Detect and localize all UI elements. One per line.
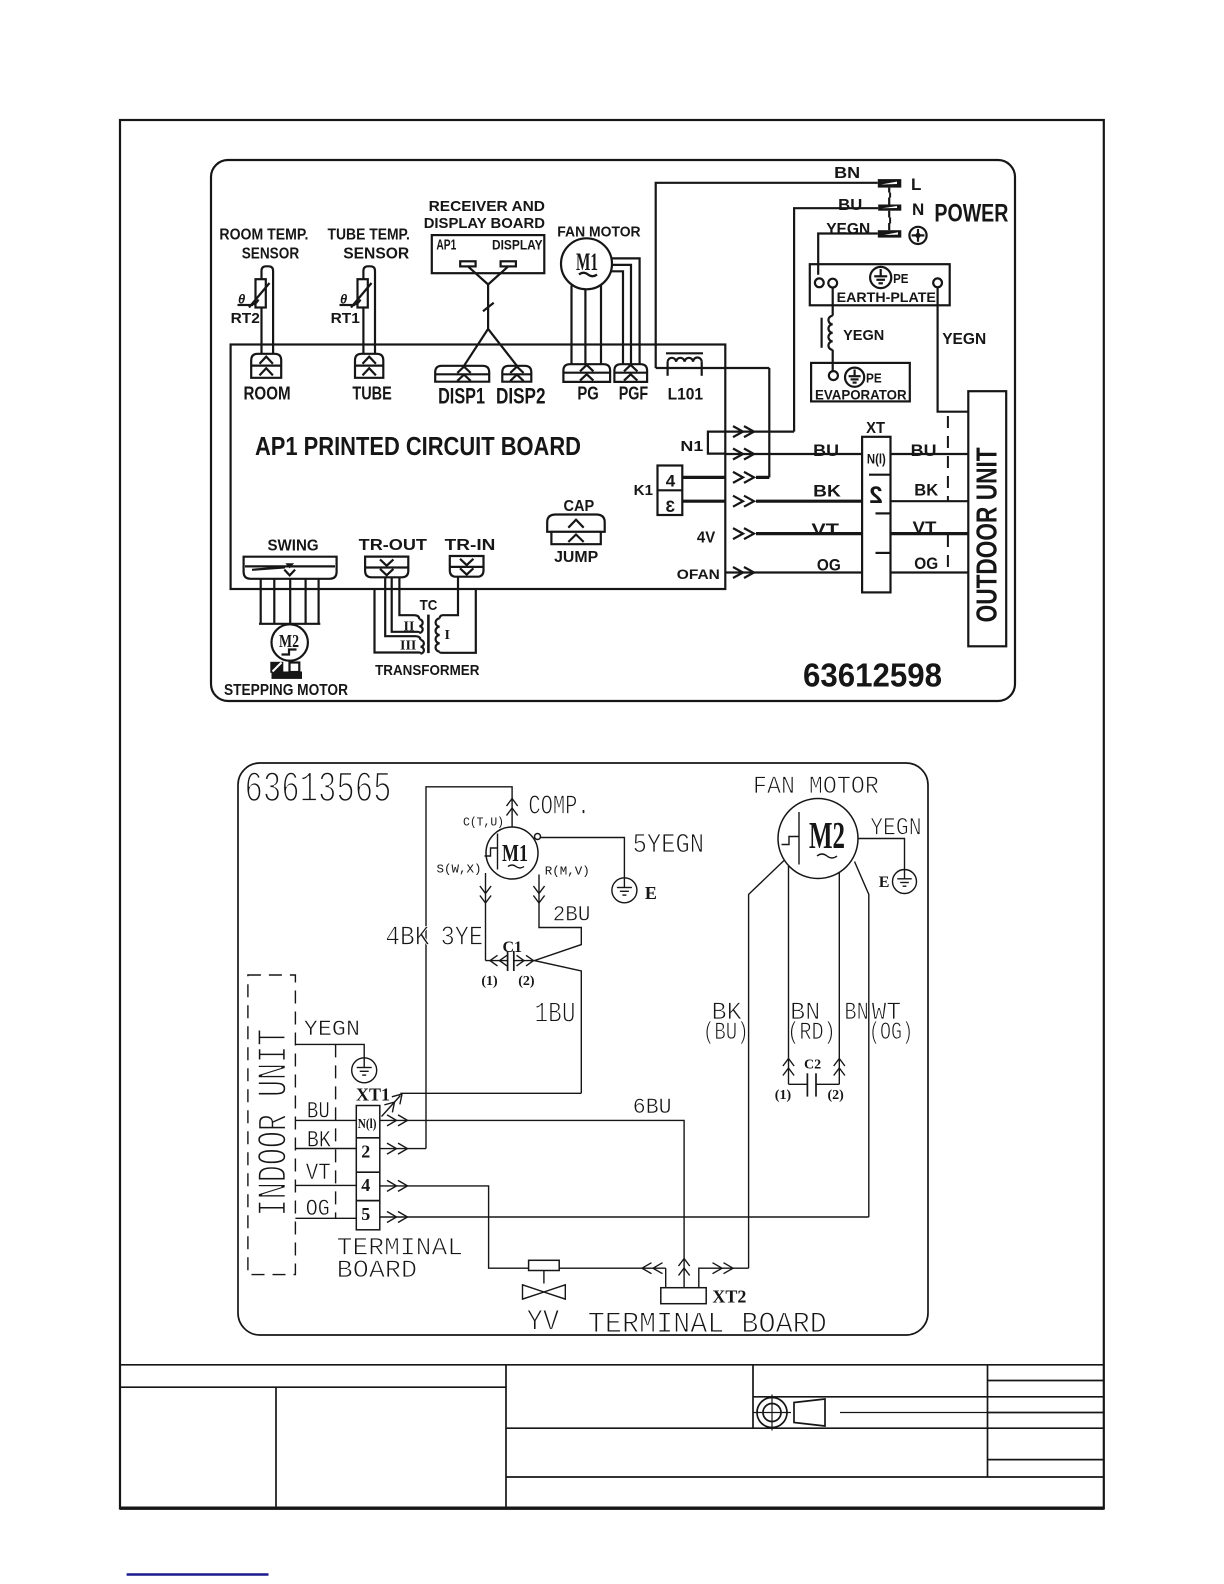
earth plate box [810,264,950,305]
arrows comp up [507,799,518,816]
svg-text:POWER: POWER [934,199,1008,227]
wire BN power [656,183,878,368]
stepping motor icon [270,662,302,679]
svg-text:XT1: XT1 [356,1085,390,1105]
wire OFAN row OG [725,571,862,573]
ground symbol indoor [352,1058,377,1083]
svg-text:OG: OG [914,554,938,573]
arrows diagonal [384,1090,406,1112]
svg-text:3: 3 [666,497,675,516]
relay K1 [658,466,683,516]
svg-text:1BU: 1BU [535,998,576,1031]
wire BK indoor [295,1148,356,1150]
connector TR-OUT [365,557,408,578]
title block vertical 2 [505,1365,507,1508]
terminal block XT1 [356,1106,380,1230]
svg-text:N(l): N(l) [358,1117,377,1132]
wire 3YE from S [485,873,487,961]
wire XT2 right pin [699,1268,749,1288]
terminal block XT [862,437,890,593]
svg-text:(2): (2) [828,1088,845,1103]
svg-text:RT2: RT2 [231,310,260,327]
valve YV body [523,1260,566,1299]
pin circle compressor E [535,834,541,840]
PE earth symbol on earth plate [870,267,891,288]
svg-text:II: II [404,620,415,635]
svg-text:5YEGN: 5YEGN [633,831,705,861]
svg-text:III: III [400,639,416,654]
pad on board right [501,261,516,266]
svg-text:VT: VT [811,520,839,539]
thermistor RT2 [238,279,270,307]
svg-text:CAP: CAP [564,498,595,515]
svg-text:BU: BU [838,197,862,214]
svg-text:YEGN: YEGN [304,1017,360,1042]
wire WT(OG) from fan [855,862,869,1218]
wire BK(BU) from fan [749,860,785,1268]
stepping motor M2 circle [272,624,308,660]
wire room sensor lead loop [262,266,274,354]
wire row2 to 4BK [380,1148,426,1150]
wire row5 to WT [380,1216,869,1218]
svg-text:C1: C1 [503,939,523,956]
title block line 1428 [506,1427,1104,1429]
arrows 6BU row [387,1115,408,1126]
PE earth symbol on evaporator [845,368,864,387]
svg-text:ROOM: ROOM [244,383,291,403]
diagram 1 enclosure box [211,160,1015,701]
wire VT indoor [295,1184,356,1186]
svg-text:BK: BK [914,481,939,500]
title block row line left [121,1386,506,1388]
wire BU row left [725,453,862,455]
svg-text:(1): (1) [775,1088,792,1103]
connector PGF [614,364,647,382]
protector in fan motor [782,812,800,865]
page border frame [120,120,1104,1509]
svg-text:4V: 4V [697,530,716,547]
projection symbol cone [794,1399,825,1426]
connector DISP2 [502,366,531,382]
wire OG row right [891,571,969,573]
choke core bar [820,318,822,348]
wire BU indoor [295,1119,356,1121]
earth screw symbol [909,227,926,244]
svg-text:E: E [879,874,890,891]
svg-text:TERMINAL BOARD: TERMINAL BOARD [588,1308,827,1342]
svg-text:BN: BN [844,998,868,1027]
svg-text:63612598: 63612598 [803,657,942,694]
svg-text:63613565: 63613565 [245,765,392,815]
arrows XT2 right [713,1263,734,1274]
arrows 4V row [733,528,754,539]
svg-text:XT2: XT2 [712,1287,746,1307]
svg-text:YEGN: YEGN [942,331,986,348]
svg-text:DISPLAY: DISPLAY [492,236,543,252]
receiver and display board box U1 [432,235,545,273]
svg-text:STEPPING MOTOR: STEPPING MOTOR [224,682,348,699]
wire compressor C loop 4BK [426,787,512,1149]
svg-text:FAN MOTOR: FAN MOTOR [753,772,879,801]
arrows N1 top [733,426,754,437]
svg-text:BU: BU [911,441,937,460]
svg-text:DISP1: DISP1 [438,383,485,408]
wire OG indoor [295,1217,356,1219]
arrows pin4 row [733,472,754,483]
svg-text:2: 2 [361,1142,370,1162]
svg-text:C(T,U): C(T,U) [463,817,504,830]
svg-text:AP1: AP1 [436,236,456,253]
terminal L [878,179,902,193]
svg-text:BK: BK [307,1128,331,1154]
svg-text:(OG): (OG) [869,1018,913,1047]
connector DISP1 [435,366,489,382]
svg-text:I: I [445,628,450,643]
blue underline mark [127,1573,269,1576]
svg-text:OG: OG [817,555,841,574]
projection symbol centerline [840,1412,988,1414]
title block line mid [753,1396,1104,1398]
svg-text:N(l): N(l) [867,451,886,467]
motor M1 circle [561,238,612,289]
svg-text:4: 4 [666,472,676,491]
transformer TC [375,577,476,654]
arrows row5 [387,1212,408,1223]
arrows BU row [733,449,754,460]
arrows BN(RD) up [783,1059,794,1076]
wire XT2 left pin [665,1268,667,1288]
svg-text:RECEIVER AND: RECEIVER AND [429,198,546,215]
connector TR-IN [450,556,484,577]
svg-text:AP1 PRINTED CIRCUIT BOARD: AP1 PRINTED CIRCUIT BOARD [255,431,581,461]
dashed earth line [947,416,949,501]
ground symbol fan E [893,870,917,894]
svg-text:L101: L101 [668,385,704,404]
svg-text:K1: K1 [634,482,653,499]
wire earth plate to evaporator [832,288,834,372]
node N1 bracket [708,432,725,454]
capacitor jumper CAP [547,515,605,545]
svg-text:TRANSFORMER: TRANSFORMER [375,662,479,679]
svg-text:N1: N1 [680,438,703,455]
title block top line [121,1364,1104,1366]
svg-text:M2: M2 [809,815,845,857]
svg-text:PE: PE [866,371,882,386]
wire motor bus [259,623,320,625]
indoor unit dashed box [248,975,296,1275]
svg-text:M1: M1 [502,841,528,867]
svg-text:TC: TC [420,597,438,614]
title block vertical 1 [275,1387,277,1508]
wire 5YEGN to earth [541,838,625,878]
svg-text:M1: M1 [576,249,598,276]
svg-text:SENSOR: SENSOR [242,246,300,263]
svg-text:TUBE TEMP.: TUBE TEMP. [328,227,410,244]
wire row4 to YV [380,1186,666,1268]
fan motor M2 circle [778,799,858,879]
title block right col line b [988,1412,1104,1414]
svg-text:VT: VT [913,518,938,537]
AP1 printed circuit board box [231,345,726,590]
svg-text:θ: θ [238,292,245,307]
svg-text:EVAPORATOR: EVAPORATOR [815,386,907,402]
terminal PE [878,223,902,238]
svg-text:R(M,V): R(M,V) [545,866,590,879]
svg-text:BK: BK [813,481,841,500]
svg-text:YEGN: YEGN [826,221,870,238]
title block right col line c [988,1459,1104,1461]
wire 6BU row [380,1120,684,1287]
svg-text:YV: YV [527,1306,560,1340]
svg-text:3YE: 3YE [441,924,484,954]
projection symbol circles [753,1395,791,1431]
svg-text:4: 4 [361,1175,370,1195]
wire fan earth [858,839,905,870]
dashed earth boundary indoor [335,1044,337,1218]
inductor L101 [666,353,703,376]
earth plate pin 3 [933,278,942,287]
svg-text:2BU: 2BU [553,903,591,928]
svg-text:PE: PE [893,271,909,286]
wire L101 row [656,368,770,477]
arrows BN up [834,1059,845,1076]
arrows C1 left [490,955,507,966]
protector in compressor [485,834,498,870]
terminal block XT2 [661,1288,706,1304]
svg-text:EARTH-PLATE: EARTH-PLATE [837,289,936,305]
earth plate pin 1 [815,278,824,287]
wire BU row right [891,453,969,455]
arrows 2BU down [533,886,544,903]
svg-text:TR-IN: TR-IN [445,537,496,554]
svg-text:COMP.: COMP. [528,792,589,822]
svg-text:(2): (2) [518,974,535,989]
svg-text:PGF: PGF [619,384,649,404]
capacitor C1 [486,951,535,971]
arrows row2 [387,1143,408,1154]
wire 2BU from R [534,875,581,1094]
svg-text:RT1: RT1 [331,310,360,327]
svg-text:TUBE: TUBE [352,383,391,403]
outdoor unit box [968,391,1006,646]
svg-text:(BU): (BU) [703,1018,749,1047]
arrows XT2 middle up [679,1259,690,1276]
wire BU power [794,208,878,431]
evaporator box [811,363,910,402]
svg-text:XT: XT [866,420,885,437]
svg-text:L: L [911,175,921,194]
title block vertical 3 [752,1365,754,1428]
arrows into XT2 left [642,1263,663,1274]
connector ROOM [251,354,281,378]
svg-text:SENSOR: SENSOR [343,246,409,263]
connector PG [563,364,610,382]
svg-text:M2: M2 [279,631,299,651]
wire VT row right [891,532,969,535]
compressor M1 circle [486,827,538,879]
evaporator pin [829,371,838,380]
page border bottom thick [120,1506,1104,1509]
dashed link between power terminals [889,193,891,226]
wire 4V row VT [756,532,862,535]
svg-text:θ: θ [340,292,347,307]
diagram 2 enclosure box [238,763,928,1335]
svg-text:5: 5 [361,1204,370,1224]
wire Y harness from display board [464,266,517,365]
terminal N [878,198,901,218]
svg-text:6BU: 6BU [633,1095,672,1120]
svg-text:YEGN: YEGN [843,327,884,344]
svg-text:DISP2: DISP2 [496,383,546,408]
pad on board left [460,261,475,266]
arrows row4 [387,1180,408,1191]
arrows pin3 row [733,496,754,507]
arrows 3YE down [480,886,491,903]
wire K1 pin3 row BK [682,500,862,503]
wire K1 pin4 row [682,476,769,479]
svg-text:BN: BN [834,165,860,182]
wire N1 top to BU power [725,431,794,433]
svg-text:BOARD: BOARD [337,1256,417,1285]
svg-text:E: E [645,883,657,903]
wire 1BU horizontal [400,1092,581,1094]
svg-text:SWING: SWING [268,538,319,555]
svg-text:OUTDOOR UNIT: OUTDOOR UNIT [972,447,1004,622]
wire M1 bottom leads [572,285,602,365]
connector TUBE [355,354,383,378]
svg-text:BU: BU [813,441,839,460]
arrows OFAN row [733,567,754,578]
wire SWING leads [261,579,319,624]
svg-text:JUMP: JUMP [554,549,598,566]
svg-text:S(W,X): S(W,X) [437,864,482,877]
svg-text:ROOM TEMP.: ROOM TEMP. [219,227,308,244]
thermistor RT1 [340,279,372,307]
title block right col line a [988,1380,1104,1382]
wire YEGN to outdoor [938,287,969,412]
arrows C1 right [517,955,534,966]
svg-text:INDOOR UNIT: INDOOR UNIT [251,1029,299,1217]
connector SWING [244,557,337,579]
svg-text:PG: PG [577,384,598,404]
wire BK row right [891,500,969,502]
wire M1 right leads [611,258,640,364]
svg-text:OFAN: OFAN [677,566,720,582]
wire BN(RD) from fan [788,866,790,1084]
wire break slash [483,303,494,311]
title block line 1477 [506,1476,1104,1478]
svg-text:C2: C2 [804,1057,821,1072]
svg-text:VT: VT [306,1160,331,1186]
wire BN from fan [838,873,840,1085]
svg-text:(1): (1) [481,974,498,989]
wire YEGN indoor [295,1044,364,1057]
wire tube sensor lead loop [363,266,375,354]
choke coil on earth wire [828,316,832,350]
svg-text:TR-OUT: TR-OUT [359,537,428,554]
title block vertical 4 [987,1365,989,1477]
ground symbol compressor E [612,878,637,903]
capacitor C2 [789,1073,840,1096]
svg-text:2: 2 [869,482,882,509]
wire YEGN power [818,234,878,275]
svg-text:4BK: 4BK [385,924,430,954]
earth plate pin 2 [828,279,837,288]
svg-text:N: N [912,200,924,219]
svg-text:DISPLAY BOARD: DISPLAY BOARD [424,215,545,232]
svg-text:FAN MOTOR: FAN MOTOR [557,224,640,241]
svg-text:(RD): (RD) [787,1018,836,1047]
wire diagonal N(1) to 1BU line [382,1096,401,1117]
